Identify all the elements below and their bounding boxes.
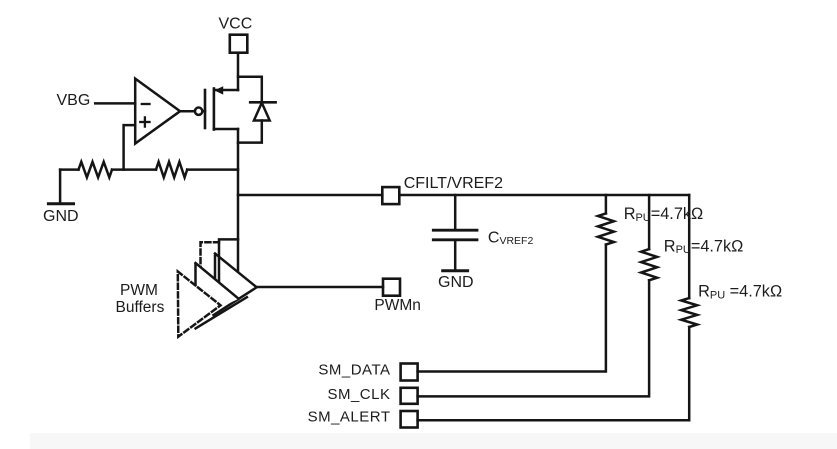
svg-text:PWM: PWM <box>120 282 158 299</box>
svg-text:SM_DATA: SM_DATA <box>318 361 390 378</box>
svg-text:VBG: VBG <box>57 92 91 109</box>
svg-text:GND: GND <box>43 208 79 225</box>
svg-text:Buffers: Buffers <box>116 299 165 316</box>
svg-text:SM_ALERT: SM_ALERT <box>308 409 391 426</box>
svg-text:PWMn: PWMn <box>374 297 421 314</box>
svg-text:VCC: VCC <box>219 16 253 33</box>
svg-text:SM_CLK: SM_CLK <box>327 386 390 403</box>
svg-text:GND: GND <box>438 274 474 291</box>
svg-text:CFILT/VREF2: CFILT/VREF2 <box>404 175 503 192</box>
